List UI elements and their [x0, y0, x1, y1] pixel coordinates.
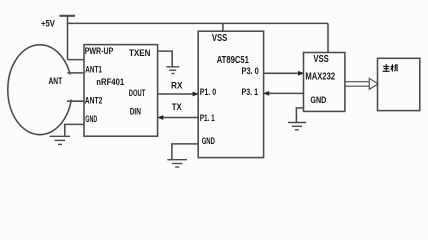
wire P3.0 to MAX232	[264, 72, 300, 74]
antenna ANT	[8, 45, 72, 135]
label 主机 host	[383, 64, 398, 71]
wire TX P1.1 to DIN	[163, 117, 199, 119]
svg-text:GND: GND	[202, 136, 215, 147]
serial link hollow arrowhead	[369, 78, 378, 89]
wire ANT2	[67, 100, 84, 102]
svg-text:P3. 0: P3. 0	[242, 66, 259, 77]
wire TXEN to ground	[158, 51, 173, 66]
svg-text:P3. 1: P3. 1	[242, 87, 259, 98]
svg-text:nRF401: nRF401	[96, 77, 124, 88]
svg-text:RX: RX	[171, 80, 183, 91]
svg-text:VSS: VSS	[212, 33, 228, 44]
IC U3 MAX232 box	[304, 53, 345, 112]
svg-text:AT89C51: AT89C51	[217, 54, 249, 66]
arrowhead TX into DIN	[157, 115, 163, 120]
svg-text:ANT1: ANT1	[85, 65, 102, 76]
svg-text:GND: GND	[310, 95, 326, 106]
glyph 主	[385, 64, 388, 66]
arrowhead RX into P1.0	[193, 92, 199, 97]
wire +5V rail	[68, 22, 329, 24]
svg-text:ANT2: ANT2	[85, 96, 103, 107]
IC U1 nRF401 box	[84, 45, 158, 137]
wire VSS drop MAX232	[327, 23, 329, 52]
wire GND AT89C51	[172, 144, 198, 159]
wire P3.1 from MAX232	[268, 92, 304, 94]
ground nRF401	[50, 136, 71, 144]
arrowhead P3.0 into MAX232	[298, 71, 304, 76]
svg-text:TX: TX	[172, 102, 183, 113]
svg-text:ANT: ANT	[49, 76, 63, 87]
svg-text:VSS: VSS	[313, 54, 329, 65]
wire ANT1	[67, 72, 84, 74]
svg-text:DIN: DIN	[130, 107, 141, 118]
svg-text:P1. 1: P1. 1	[200, 113, 215, 124]
wire +5V vertical feed	[67, 16, 69, 60]
wire GND MAX232	[296, 108, 303, 123]
ground TXEN	[166, 67, 179, 74]
ground AT89C51	[167, 160, 187, 167]
wire nRF401 GND	[65, 124, 84, 136]
svg-text:P1. 0: P1. 0	[200, 87, 217, 98]
svg-text:MAX232: MAX232	[305, 71, 335, 82]
host computer box	[378, 58, 420, 110]
svg-text:DOUT: DOUT	[129, 88, 146, 99]
glyph 机	[391, 66, 394, 68]
wire VSS drop AT89C51	[222, 23, 224, 31]
serial link double line	[345, 81, 369, 83]
wire PWR-UP feed	[68, 59, 85, 61]
svg-text:TXEN: TXEN	[129, 48, 151, 59]
svg-text:GND: GND	[85, 114, 97, 125]
svg-text:PWR-UP: PWR-UP	[85, 46, 114, 57]
arrowhead P3.1 into AT89C51	[263, 91, 269, 96]
IC U2 AT89C51 box	[198, 31, 263, 157]
wire RX DOUT to P1.0	[158, 93, 194, 95]
ground MAX232	[288, 123, 306, 130]
+5V supply bar	[60, 15, 76, 17]
svg-text:+5V: +5V	[41, 18, 55, 29]
